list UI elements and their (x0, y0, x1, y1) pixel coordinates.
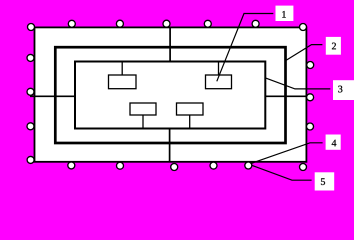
handle left 3 (27, 123, 34, 130)
leader line to label 1 (217, 14, 273, 82)
handle top-left corner (28, 24, 35, 31)
handle bottom 1 (68, 162, 75, 169)
vertical centerline bottom segment (169, 129, 171, 162)
handle bottom 2 (117, 162, 124, 169)
handle left 2 (27, 88, 34, 95)
vertical centerline top segment (169, 27, 171, 61)
horizontal centerline left segment (30, 95, 75, 97)
leader line to label 2 (286, 45, 323, 61)
handle bottom 3 (171, 164, 178, 171)
horizontal centerline right segment (265, 95, 308, 97)
handle top-right corner (300, 24, 307, 31)
box A (109, 75, 137, 89)
handle right 2 (307, 94, 314, 101)
leader line to label 4 (250, 143, 323, 164)
label 2 box (326, 37, 341, 55)
label 5 box (315, 172, 335, 190)
handle bottom-left corner (27, 156, 34, 163)
stem of box B (218, 62, 220, 76)
outer rectangle R1 (selected drawing area) (35, 27, 307, 161)
stem of box C (142, 115, 144, 129)
handle top 1 (68, 20, 75, 27)
stem of box D (189, 115, 191, 129)
label 4 box (326, 135, 341, 150)
handle right 1 (307, 62, 314, 69)
leader line to label 5 (250, 165, 312, 181)
handle right 3 (307, 123, 314, 130)
handle bottom 4 (210, 162, 217, 169)
handle top 3 (163, 20, 170, 27)
stem of box A (121, 62, 123, 76)
box D (177, 103, 204, 115)
box C (130, 103, 156, 115)
inner rectangle R3 (75, 62, 265, 129)
box B (206, 75, 232, 89)
handle bottom 5 (245, 162, 252, 169)
handle left 1 (27, 54, 34, 61)
handle top 5 (252, 20, 259, 27)
label 3 box (333, 80, 354, 100)
label 1 box (276, 6, 294, 21)
handle top 4 (204, 20, 211, 27)
leader line to label 3 (265, 78, 330, 89)
handle bottom-right corner (300, 164, 307, 171)
thick rectangle R2 (55, 47, 285, 143)
handle top 2 (116, 20, 123, 27)
